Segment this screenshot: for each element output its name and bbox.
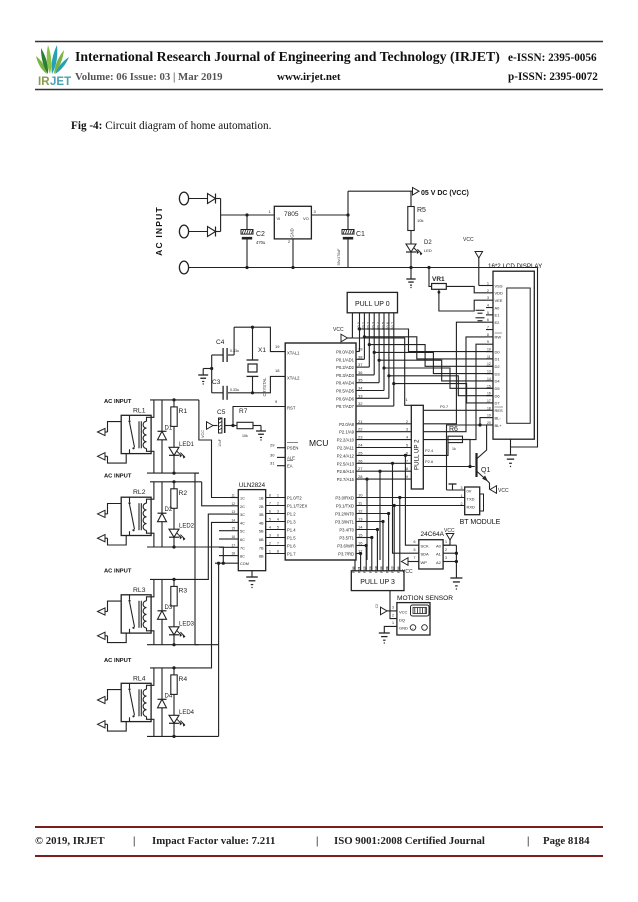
wire P2.5 to SDA <box>393 463 419 553</box>
wire <box>189 231 208 233</box>
svg-text:P2.4/A12: P2.4/A12 <box>337 453 355 458</box>
svg-text:COM: COM <box>240 562 249 566</box>
RP0 pin2 wire / node P0.0 <box>359 313 361 352</box>
diode D1 <box>161 400 163 431</box>
svg-text:VDD: VDD <box>495 291 504 296</box>
svg-text:12: 12 <box>232 502 236 506</box>
MCU pin PSEN <box>277 447 285 449</box>
LCD pin 16 D6 <box>486 395 493 397</box>
connector J1 pin1 <box>179 192 188 205</box>
wire R6 to base <box>463 439 475 466</box>
RP0 pin1 wire <box>351 313 353 338</box>
svg-text:P2.0/A8: P2.0/A8 <box>339 422 355 427</box>
svg-text:A1: A1 <box>436 552 442 557</box>
LCD pin 3 VEE <box>486 299 493 301</box>
capacitor C1 <box>342 230 354 235</box>
svg-text:36: 36 <box>358 370 363 375</box>
svg-text:21: 21 <box>358 419 363 424</box>
svg-text:PULL UP 2: PULL UP 2 <box>414 439 421 470</box>
ULN right pin wire to P1.2 <box>266 513 286 515</box>
svg-text:1C: 1C <box>240 497 245 501</box>
resistor R1 <box>173 400 175 407</box>
wire RL1 ctrl to ULN 1C <box>199 400 230 498</box>
VCC arrow motion <box>381 607 388 615</box>
svg-text:AC INPUT: AC INPUT <box>104 568 132 574</box>
svg-text:R4: R4 <box>179 676 188 683</box>
svg-text:27: 27 <box>358 466 363 471</box>
svg-text:Q1: Q1 <box>481 467 490 474</box>
svg-text:XTAL2: XTAL2 <box>287 375 300 380</box>
ULN right pin wire to P1.1 <box>266 505 286 507</box>
RP3 pin1 wire <box>354 560 356 571</box>
svg-text:+: + <box>412 627 414 631</box>
motion sensor U4 <box>397 603 430 635</box>
svg-text:RES: RES <box>495 408 504 413</box>
svg-text:16: 16 <box>487 392 491 396</box>
svg-text:3: 3 <box>406 428 408 432</box>
svg-text:8: 8 <box>269 494 271 498</box>
capacitor C2 <box>241 230 253 235</box>
svg-text:4B: 4B <box>259 521 264 525</box>
svg-text:28: 28 <box>358 474 363 479</box>
svg-text:D3: D3 <box>495 371 501 376</box>
wire P3.0 to BT TXD <box>356 497 465 499</box>
svg-text:10k: 10k <box>242 434 248 438</box>
wire RST net <box>233 407 285 426</box>
svg-text:6B: 6B <box>259 538 264 542</box>
svg-text:C1: C1 <box>356 231 365 238</box>
svg-text:30: 30 <box>270 452 275 457</box>
wire VO net <box>311 214 348 216</box>
svg-text:P3.2/INT0: P3.2/INT0 <box>335 512 355 517</box>
svg-text:VO: VO <box>303 216 309 221</box>
pull-up pack RP2 <box>411 405 423 489</box>
wire VR1 to VDD <box>446 286 486 292</box>
svg-text:p-ISSN: 2395-0072: p-ISSN: 2395-0072 <box>508 71 598 83</box>
wire 7805 gnd <box>292 239 294 268</box>
svg-text:1: 1 <box>277 494 279 498</box>
LCD pin 5 E1 <box>486 314 493 316</box>
svg-text:P2.6: P2.6 <box>425 459 434 464</box>
svg-text:10uF: 10uF <box>218 439 222 447</box>
RP3 pin2 wire <box>360 554 362 571</box>
svg-text:A0: A0 <box>495 305 501 310</box>
svg-text:D2: D2 <box>424 240 432 246</box>
ULN left pin 17 <box>230 546 238 548</box>
LCD pin 18 RES <box>486 409 493 411</box>
A0 pin marks <box>476 309 485 311</box>
svg-text:34: 34 <box>358 386 363 391</box>
IRJET logo leaves <box>36 56 47 74</box>
RP0 pin8 wire / node P0.6 <box>388 313 390 399</box>
wire P2.6 <box>356 470 411 472</box>
svg-text:TXD: TXD <box>467 497 475 502</box>
ULN right pin wire to P1.7 <box>266 553 286 555</box>
wire P0.6 <box>356 397 389 399</box>
RP0 pin6 wire / node P0.4 <box>378 313 380 383</box>
ground bus RL4 to COM <box>199 735 219 737</box>
diode D4 <box>161 668 163 699</box>
EEPROM U3 24C64A <box>419 540 443 569</box>
wire P0.7 <box>356 405 394 407</box>
svg-text:7: 7 <box>487 326 489 330</box>
wire P0.2 <box>356 366 369 368</box>
resistor R4 <box>173 668 175 675</box>
svg-text:3: 3 <box>277 510 279 514</box>
svg-text:WP: WP <box>421 560 428 565</box>
svg-text:SCK: SCK <box>421 544 430 549</box>
svg-text:C5: C5 <box>217 409 226 416</box>
svg-text:RL2: RL2 <box>133 489 146 496</box>
label 05 V DC (VCC) <box>413 188 420 196</box>
svg-text:11: 11 <box>232 494 236 498</box>
svg-text:P1.3: P1.3 <box>287 520 296 525</box>
svg-text:P2.4: P2.4 <box>425 448 434 453</box>
diode D2 <box>161 482 163 513</box>
svg-text:12: 12 <box>358 509 363 514</box>
LCD pin 20 BL+ <box>486 424 493 426</box>
svg-text:7: 7 <box>414 556 416 560</box>
svg-text:2: 2 <box>406 420 408 424</box>
footer bottom rule <box>35 855 603 857</box>
ULN left pin 18 <box>230 555 238 557</box>
LCD pin 19 BL- <box>486 417 493 419</box>
connector arrows RL2 <box>98 510 106 517</box>
wire RL4 ctrl to ULN 4C <box>199 522 230 668</box>
wire P3.7 <box>356 553 361 555</box>
svg-text:5B: 5B <box>259 530 264 534</box>
svg-text:7: 7 <box>277 542 279 546</box>
wire RL2 ctrl to ULN 2C <box>199 481 202 483</box>
wire AC bracket RL2 <box>108 504 122 514</box>
svg-text:P2.1/A9: P2.1/A9 <box>339 430 355 435</box>
svg-text:International Research Journal: International Research Journal of Engine… <box>75 49 500 65</box>
svg-text:D6: D6 <box>495 393 501 398</box>
wire P0.5 <box>356 390 384 392</box>
svg-text:VCC: VCC <box>402 569 413 575</box>
wire P3.5 <box>356 537 372 539</box>
crystal X1 <box>252 327 254 360</box>
svg-text:C2: C2 <box>375 604 379 608</box>
wire P2.4 net <box>423 443 448 456</box>
svg-text:Impact Factor value: 7.211: Impact Factor value: 7.211 <box>152 835 275 847</box>
main ground rail right <box>348 267 538 269</box>
svg-text:1k: 1k <box>452 447 456 451</box>
wire P2.7 <box>356 478 411 480</box>
diode D7 <box>208 227 216 237</box>
wire coil RL4 <box>147 668 154 689</box>
transistor Q1 <box>475 453 477 477</box>
svg-text:10: 10 <box>487 348 491 352</box>
svg-text:CRYSTAL: CRYSTAL <box>262 377 267 397</box>
svg-text:LED4: LED4 <box>179 710 195 716</box>
svg-text:5: 5 <box>414 548 416 552</box>
svg-text:|: | <box>527 835 529 847</box>
wire P3.6 <box>356 545 366 547</box>
svg-text:12: 12 <box>487 362 491 366</box>
RP3 pin5 wire <box>376 530 378 571</box>
svg-text:AC INPUT: AC INPUT <box>104 399 132 405</box>
LCD pin 7 nc <box>486 329 493 331</box>
ULN COM wire <box>215 562 238 564</box>
MCU pin ALE <box>277 456 285 458</box>
svg-text:D4: D4 <box>495 379 501 384</box>
svg-text:5: 5 <box>406 444 408 448</box>
LCD pin 11 D1 <box>486 358 493 360</box>
svg-text:13: 13 <box>358 517 363 522</box>
svg-text:35: 35 <box>358 378 363 383</box>
ground below LCD <box>510 439 512 455</box>
wire P2.7 drop <box>366 479 368 560</box>
RP3 pin9 wire <box>399 498 401 571</box>
ULN left pin 12 <box>230 505 238 507</box>
svg-text:P2.5/A13: P2.5/A13 <box>337 461 355 466</box>
wire XTAL1 net <box>234 327 285 351</box>
svg-text:D5: D5 <box>495 386 501 391</box>
svg-text:1: 1 <box>269 550 271 554</box>
wire XTAL2 net <box>234 376 285 392</box>
svg-text:8C: 8C <box>240 555 245 559</box>
connector arrows RL1 <box>98 428 106 435</box>
connector J1 pin2 <box>179 225 188 238</box>
wire VSS <box>479 285 486 287</box>
svg-text:RXD: RXD <box>467 504 476 509</box>
svg-text:PSEN: PSEN <box>287 446 298 451</box>
svg-text:11: 11 <box>358 566 362 570</box>
svg-text:IR: IR <box>38 76 50 88</box>
ULN left pin 16 <box>230 538 238 540</box>
E1 pin marks <box>476 317 485 319</box>
svg-text:BT MODULE: BT MODULE <box>460 519 501 526</box>
svg-text:6: 6 <box>269 510 271 514</box>
svg-text:6: 6 <box>277 534 279 538</box>
wire AC bracket RL4 <box>108 690 122 700</box>
svg-text:20: 20 <box>487 421 491 425</box>
ULN left pin 13 <box>230 513 238 515</box>
svg-text:13: 13 <box>369 566 373 570</box>
svg-text:15: 15 <box>487 384 491 388</box>
resistor R7 <box>233 425 237 427</box>
resistor R3 <box>173 579 175 586</box>
svg-text:RL4: RL4 <box>133 675 146 682</box>
ULN right pin wire to P1.3 <box>266 521 286 523</box>
rail bottom RL1 <box>147 472 199 474</box>
RP0 pin7 wire / node P0.5 <box>383 313 385 391</box>
svg-text:16: 16 <box>386 566 390 570</box>
svg-text:9: 9 <box>487 340 489 344</box>
svg-text:P3.0/RXD: P3.0/RXD <box>335 496 354 501</box>
LCD pin 8 RW <box>486 336 493 338</box>
wire RL3 ctrl to ULN 3C <box>199 514 230 579</box>
LCD pin 14 D4 <box>486 380 493 382</box>
svg-text:05 V DC (VCC): 05 V DC (VCC) <box>421 190 469 197</box>
svg-text:P3.7/RD: P3.7/RD <box>338 552 354 557</box>
svg-text:3C: 3C <box>240 513 245 517</box>
wire P3.2 <box>356 513 389 515</box>
svg-text:35v/470uF: 35v/470uF <box>337 248 341 266</box>
RP3 pin6 wire <box>382 522 384 571</box>
svg-text:© 2019, IRJET: © 2019, IRJET <box>35 835 105 847</box>
svg-text:33: 33 <box>358 393 363 398</box>
svg-text:2: 2 <box>445 548 447 552</box>
svg-text:7B: 7B <box>259 546 264 550</box>
svg-text:22: 22 <box>358 427 363 432</box>
wire coil RL3 <box>147 579 154 600</box>
svg-text:7: 7 <box>269 502 271 506</box>
svg-text:14: 14 <box>232 518 236 522</box>
svg-text:15: 15 <box>358 533 363 538</box>
svg-text:37: 37 <box>358 362 363 367</box>
svg-text:18: 18 <box>487 406 491 410</box>
RP0 pin3 wire / node P0.1 <box>363 313 365 360</box>
svg-text:3: 3 <box>487 296 489 300</box>
wire RW net <box>423 337 486 432</box>
svg-text:4: 4 <box>406 436 408 440</box>
regulator U2 7805 <box>274 206 311 239</box>
header bottom rule <box>35 89 603 91</box>
svg-text:ULN2824: ULN2824 <box>239 482 266 489</box>
ground 24C64A <box>450 577 462 579</box>
svg-text:A0: A0 <box>436 544 442 549</box>
svg-text:0V: 0V <box>467 489 472 494</box>
pull-up pack RP3 <box>351 571 404 591</box>
RP3 pin8 wire <box>393 506 395 571</box>
svg-text:P2.6/A14: P2.6/A14 <box>337 469 355 474</box>
svg-text:19: 19 <box>487 414 491 418</box>
wire P3.4 <box>356 529 377 531</box>
svg-text:P1.2: P1.2 <box>287 512 296 517</box>
wire P3.3 <box>356 521 383 523</box>
svg-text:LED1: LED1 <box>179 442 195 448</box>
svg-text:8: 8 <box>406 467 408 471</box>
ULN right pin wire to P1.6 <box>266 545 286 547</box>
LCD pin 15 D5 <box>486 387 493 389</box>
svg-text:1: 1 <box>392 621 394 625</box>
svg-text:LED: LED <box>424 248 432 253</box>
wire P0.4 <box>356 382 379 384</box>
svg-text:38: 38 <box>358 354 363 359</box>
svg-text:-: - <box>423 627 424 631</box>
svg-text:VI: VI <box>277 216 281 221</box>
resistor R5 <box>410 191 412 206</box>
svg-text:|: | <box>133 835 135 847</box>
ULN right pin wire to P1.4 <box>266 529 286 531</box>
wire P2.0 <box>356 423 411 425</box>
LCD pin 4 A0 <box>486 307 493 309</box>
svg-text:BL-: BL- <box>495 415 502 420</box>
LED D2 <box>406 244 416 252</box>
wire P0.0 <box>356 351 360 353</box>
svg-text:D0: D0 <box>495 349 501 354</box>
rail bottom RL4 <box>147 735 199 737</box>
VCC arrow Q1 emitter <box>489 483 491 490</box>
svg-text:8: 8 <box>487 333 489 337</box>
svg-text:3: 3 <box>269 534 271 538</box>
svg-text:1: 1 <box>445 540 447 544</box>
svg-text:3: 3 <box>392 606 394 610</box>
ULN rows 5-8 stubs <box>219 530 230 532</box>
LCD pin 2 VDD <box>486 292 493 294</box>
svg-text:24: 24 <box>358 443 363 448</box>
capacitor C5 electrolytic <box>219 418 222 433</box>
wire P0.3 <box>356 374 374 376</box>
svg-text:5: 5 <box>269 518 271 522</box>
svg-text:4: 4 <box>269 526 271 530</box>
footer top rule <box>35 826 603 828</box>
RP3 pin4 wire <box>371 538 373 571</box>
svg-text:R3: R3 <box>179 587 188 594</box>
svg-text:P1.6: P1.6 <box>287 544 296 549</box>
svg-text:17: 17 <box>487 399 491 403</box>
wire <box>189 198 208 200</box>
svg-text:5: 5 <box>277 526 279 530</box>
svg-text:www.irjet.net: www.irjet.net <box>277 71 341 83</box>
svg-text:A2: A2 <box>436 560 442 565</box>
wire <box>216 198 221 200</box>
svg-text:|: | <box>316 835 318 847</box>
svg-text:8B: 8B <box>259 555 264 559</box>
svg-text:R7: R7 <box>239 408 248 415</box>
svg-text:R6: R6 <box>449 426 458 433</box>
svg-text:14: 14 <box>374 566 378 570</box>
svg-text:P3.1/TXD: P3.1/TXD <box>336 504 354 509</box>
wire E2 net <box>423 322 486 424</box>
RP0 pin4 wire / node P0.2 <box>368 313 370 367</box>
rail top RL4 <box>150 667 199 669</box>
ground bus RL1-RL3 <box>195 472 199 474</box>
svg-text:39: 39 <box>358 347 363 352</box>
ULN left pin 14 <box>230 521 238 523</box>
svg-text:R1: R1 <box>179 408 188 415</box>
svg-text:Page 8184: Page 8184 <box>543 835 590 847</box>
svg-text:16*2 LCD DISPLAY: 16*2 LCD DISPLAY <box>488 263 542 270</box>
svg-text:3: 3 <box>461 486 463 490</box>
svg-text:10: 10 <box>358 493 363 498</box>
ULN right pin wire to P1.0 <box>266 497 286 499</box>
svg-text:EA: EA <box>287 464 293 469</box>
svg-text:16: 16 <box>358 541 363 546</box>
svg-text:C2: C2 <box>256 231 265 238</box>
svg-text:12: 12 <box>363 566 367 570</box>
BT module <box>465 487 480 515</box>
svg-text:C4: C4 <box>216 339 225 346</box>
wire P3.1 to BT RXD <box>356 505 465 507</box>
MCU U1 <box>285 343 356 560</box>
svg-text:4: 4 <box>487 304 489 308</box>
svg-text:6C: 6C <box>240 538 245 542</box>
svg-text:0.33u: 0.33u <box>230 388 239 392</box>
svg-text:D1: D1 <box>495 357 501 362</box>
svg-text:470u: 470u <box>256 240 266 245</box>
svg-text:C3: C3 <box>212 379 221 386</box>
rail top RL1 <box>150 399 199 401</box>
wire P2.5 <box>356 462 411 464</box>
LCD pin 6 E2 <box>486 321 493 323</box>
wire R6 left lead <box>444 438 448 440</box>
wire P2.3 <box>356 447 411 449</box>
resistor R2 <box>173 482 175 489</box>
RP0 pin9 wire / node P0.7 <box>393 313 395 406</box>
wire AC bracket RL1 <box>108 422 122 432</box>
svg-text:6: 6 <box>487 318 489 322</box>
svg-text:RST: RST <box>287 406 296 411</box>
svg-text:4C: 4C <box>240 521 245 525</box>
rail bottom RL2 <box>147 546 199 548</box>
svg-text:R2: R2 <box>179 490 188 497</box>
svg-text:RW: RW <box>495 335 502 340</box>
svg-text:P0.3/AD3: P0.3/AD3 <box>336 373 355 378</box>
svg-text:VCC: VCC <box>399 610 408 615</box>
